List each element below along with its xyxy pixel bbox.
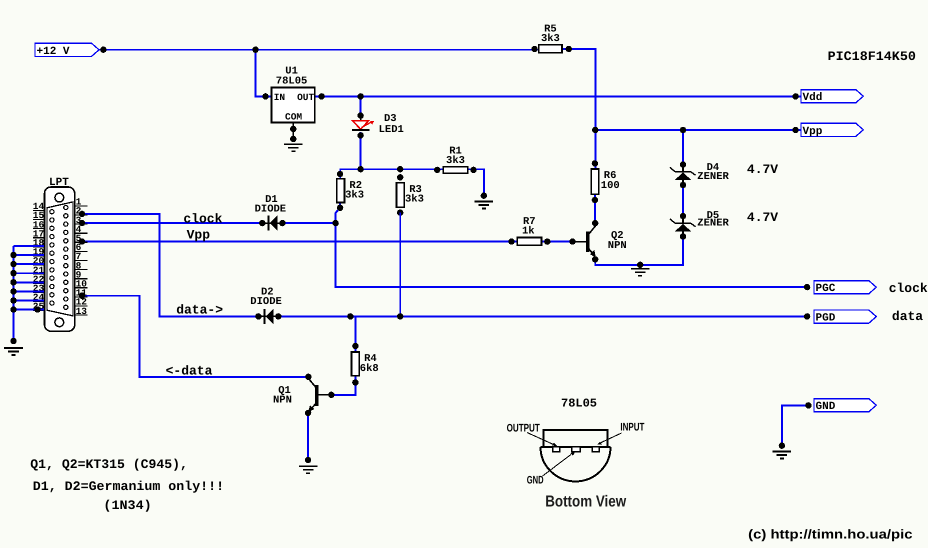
svg-text:1k: 1k xyxy=(522,226,535,238)
junction Q2 emitter ground xyxy=(637,262,643,268)
LPT pin 12 label xyxy=(75,297,88,308)
junction dots data line xyxy=(347,313,403,319)
svg-text:clock: clock xyxy=(889,281,928,296)
wire U1 COM stub xyxy=(292,129,294,139)
svg-text:LED1: LED1 xyxy=(379,124,404,136)
svg-text:COM: COM xyxy=(285,111,302,122)
wire R6 column top xyxy=(594,130,596,169)
wire clock down to PGC flag line xyxy=(336,223,807,287)
D1 terminal dots xyxy=(259,220,286,226)
wire Vpp pin5 line to R7 xyxy=(80,241,518,243)
svg-text:DIODE: DIODE xyxy=(255,204,287,216)
Vpp output flag xyxy=(801,123,863,138)
LPT pin 25 label xyxy=(33,301,45,312)
LPT pin 11 label xyxy=(75,288,88,299)
diode D1 xyxy=(262,216,283,231)
LPT pin 10 label xyxy=(75,279,88,290)
wire Q1 emitter to ground xyxy=(307,413,309,460)
resistor R5 3k3 xyxy=(539,45,562,53)
svg-text:OUTPUT: OUTPUT xyxy=(507,422,540,434)
svg-text:4.7V: 4.7V xyxy=(747,210,778,225)
78L05 package body xyxy=(541,430,611,481)
svg-text:6k8: 6k8 xyxy=(360,363,379,375)
transistor Q2 NPN xyxy=(573,223,597,259)
svg-text:D3: D3 xyxy=(384,113,397,125)
wire R7 right to Q2 base xyxy=(542,241,573,243)
svg-text:78L05: 78L05 xyxy=(561,397,597,411)
LPT pin 24 label xyxy=(33,292,45,303)
R5 terminal dots xyxy=(531,46,572,52)
wire LPT ground bus pins 18-25 xyxy=(14,246,45,341)
wire GND flag to ground symbol xyxy=(782,405,809,445)
svg-text:clock: clock xyxy=(183,211,222,226)
svg-text:3k3: 3k3 xyxy=(446,155,465,167)
GND output flag xyxy=(814,399,876,414)
diode D2 xyxy=(258,309,279,324)
wire LPT pin11 down to <-data line and Q1 collector xyxy=(80,296,309,377)
wire data line D2 to PGD flag xyxy=(278,315,807,317)
78L05 pin 1 square xyxy=(553,447,560,452)
resistor R1 3k3 xyxy=(443,167,467,174)
78L05 pin 3 square xyxy=(592,447,599,452)
svg-text:INPUT: INPUT xyxy=(620,421,644,433)
svg-text:Vpp: Vpp xyxy=(187,227,211,242)
svg-text:Vpp: Vpp xyxy=(803,126,823,138)
LPT inner face xyxy=(47,202,73,316)
resistor R6 100 xyxy=(591,169,599,194)
LPT pin 19 label xyxy=(33,247,45,258)
LPT pin 2 label xyxy=(75,206,88,217)
Vdd output flag xyxy=(801,90,863,105)
wire +12V rail from flag to R5 and down to Vpp node xyxy=(98,49,596,130)
wire D3 LED branch from Vdd line down to node line xyxy=(360,96,362,169)
78L05 INPUT arrow xyxy=(601,433,622,443)
svg-text:Q1, Q2=KT315 (C945),: Q1, Q2=KT315 (C945), xyxy=(30,457,188,472)
svg-text:<-data: <-data xyxy=(166,364,213,379)
Vpp flag dot xyxy=(792,127,798,133)
svg-text:GND: GND xyxy=(527,475,544,487)
svg-text:100: 100 xyxy=(601,180,620,192)
svg-text:data: data xyxy=(892,309,923,324)
svg-text:Vdd: Vdd xyxy=(803,92,823,104)
Vdd flag dot xyxy=(792,93,798,99)
resistor R4 6k8 xyxy=(352,352,360,376)
zener diode D4 xyxy=(670,161,696,188)
svg-text:data->: data-> xyxy=(176,303,223,318)
wire between D4 and D5 xyxy=(682,185,684,216)
wire R3 bottom to data line xyxy=(399,213,401,317)
svg-text:NPN: NPN xyxy=(608,240,627,252)
svg-text:ZENER: ZENER xyxy=(697,218,729,230)
R4 terminal dots xyxy=(352,343,358,386)
resistor R3 3k3 xyxy=(397,183,405,208)
ground Q2 emitter line xyxy=(631,269,650,276)
R6 terminal dots xyxy=(592,160,598,203)
wire U1 input drop from +12V rail xyxy=(256,50,272,97)
ground GND flag xyxy=(773,451,792,458)
svg-text:ZENER: ZENER xyxy=(697,171,729,183)
junction clock line xyxy=(332,220,338,226)
wire LPT ground bus overlay xyxy=(14,246,45,341)
LPT pin 8 label xyxy=(75,260,88,271)
LPT pin circles right column 1-13 xyxy=(64,205,68,309)
U1 COM lead xyxy=(292,123,294,142)
wire node line R2-D3-R3-R1 and down to ground xyxy=(340,169,484,196)
wire R6 bottom to Q2 collector xyxy=(594,194,596,223)
LPT pin 20 label xyxy=(33,256,45,267)
junction +12V flag xyxy=(100,47,106,53)
junction +12V to U1 xyxy=(252,47,258,53)
wire D1 to junction xyxy=(282,222,335,224)
LPT mounting hole bottom xyxy=(55,318,64,327)
op U1 78L05 regulator box xyxy=(271,87,314,122)
wire LPT pin2 to data line and D2 xyxy=(80,214,259,317)
svg-text:78L05: 78L05 xyxy=(276,75,308,87)
ground R1 xyxy=(475,202,494,209)
svg-text:DIODE: DIODE xyxy=(250,296,282,308)
LPT pin 9 label xyxy=(75,269,88,280)
svg-text:(c) http://timn.ho.ua/pic: (c) http://timn.ho.ua/pic xyxy=(748,527,912,542)
LPT pin 14 label xyxy=(33,201,45,212)
+12V supply flag xyxy=(35,43,99,58)
PGD flag dot xyxy=(804,313,810,319)
wire R2 bottom jog to clock line xyxy=(336,203,341,224)
svg-text:NPN: NPN xyxy=(273,395,292,407)
transistor Q1 NPN xyxy=(308,378,331,412)
LPT pin 4 label xyxy=(75,224,88,235)
LPT mounting hole top xyxy=(55,193,64,202)
svg-text:4.7V: 4.7V xyxy=(747,162,778,177)
svg-text:(1N34): (1N34) xyxy=(103,498,151,513)
svg-text:PGD: PGD xyxy=(816,313,836,325)
wire clock line pin3 to D1 xyxy=(80,222,263,224)
resistor R2 3k3 xyxy=(337,179,345,203)
LPT pin 16 label xyxy=(33,219,45,230)
svg-text:LPT: LPT xyxy=(49,177,69,189)
LPT pin 18 label xyxy=(33,238,45,249)
78L05 GND arrow xyxy=(543,455,572,477)
wire Vpp output line y130 to Vpp flag xyxy=(595,129,801,131)
78L05 pin 2 square xyxy=(572,447,580,452)
LPT pin 6 label xyxy=(75,242,88,253)
Q2 terminal dots xyxy=(569,220,598,263)
GND flag dots xyxy=(779,402,812,449)
LPT pin 7 label xyxy=(75,251,88,262)
R3 terminal dots xyxy=(397,174,403,216)
wire R4 bottom to Q1 base node xyxy=(331,376,355,395)
wire U1 output to Vdd flag xyxy=(315,95,801,97)
D3 terminal dots xyxy=(357,93,363,138)
LPT pin 3 label xyxy=(75,215,88,226)
svg-text:Bottom View: Bottom View xyxy=(545,493,626,510)
LPT connector body xyxy=(45,187,75,331)
svg-text:PIC18F14K50: PIC18F14K50 xyxy=(828,49,916,64)
U1 pin dots xyxy=(262,93,325,142)
LPT ground bus junction dots xyxy=(10,252,40,344)
LPT pin 15 label xyxy=(33,210,45,221)
svg-text:D1, D2=Germanium only!!!: D1, D2=Germanium only!!! xyxy=(33,479,224,494)
svg-text:PGC: PGC xyxy=(816,283,836,295)
svg-text:IN: IN xyxy=(274,92,286,103)
LPT pin 1 label xyxy=(75,197,88,208)
zener diode D5 xyxy=(670,213,696,240)
svg-text:+12 V: +12 V xyxy=(37,46,70,58)
junction dots Vpp line xyxy=(592,127,686,133)
D2 terminal dots xyxy=(255,313,281,319)
wire Q2 emitter down and right to zener bottom xyxy=(595,237,683,265)
R7 terminal dots xyxy=(508,238,550,244)
resistor R7 1k xyxy=(517,238,541,246)
Q1 terminal dots xyxy=(305,374,335,464)
LPT pin 22 label xyxy=(33,274,45,285)
svg-text:OUT: OUT xyxy=(297,92,314,103)
LPT pin 5 label xyxy=(75,233,88,244)
LPT pin 21 label xyxy=(33,265,45,276)
R1 terminal dots xyxy=(434,167,487,199)
LED D3 symbol xyxy=(352,116,374,130)
wire zener column top from Vpp line to D4 xyxy=(682,130,684,165)
LPT pin circles left column 14-25 xyxy=(50,210,54,306)
svg-text:13: 13 xyxy=(76,306,88,317)
LPT pin wire dots xyxy=(79,211,85,299)
ground Q1 emitter xyxy=(299,466,318,473)
svg-text:GND: GND xyxy=(816,401,836,413)
wire R4 branch from data line xyxy=(354,316,356,352)
78L05 OUTPUT arrow xyxy=(527,433,553,445)
R2 terminal dots xyxy=(337,171,343,211)
svg-text:3k3: 3k3 xyxy=(345,190,364,202)
ground U1 COM xyxy=(284,144,303,151)
LPT pin 13 label xyxy=(75,306,88,317)
LPT pin 17 label xyxy=(33,228,45,239)
PGC output flag xyxy=(814,281,876,296)
svg-text:3k3: 3k3 xyxy=(405,194,424,206)
PGC flag dot xyxy=(804,284,810,290)
ground LPT bus xyxy=(4,348,23,355)
PGD output flag xyxy=(814,310,876,325)
svg-text:3k3: 3k3 xyxy=(541,33,560,45)
LPT pin 23 label xyxy=(33,283,45,294)
junction dots node line xyxy=(357,166,403,172)
